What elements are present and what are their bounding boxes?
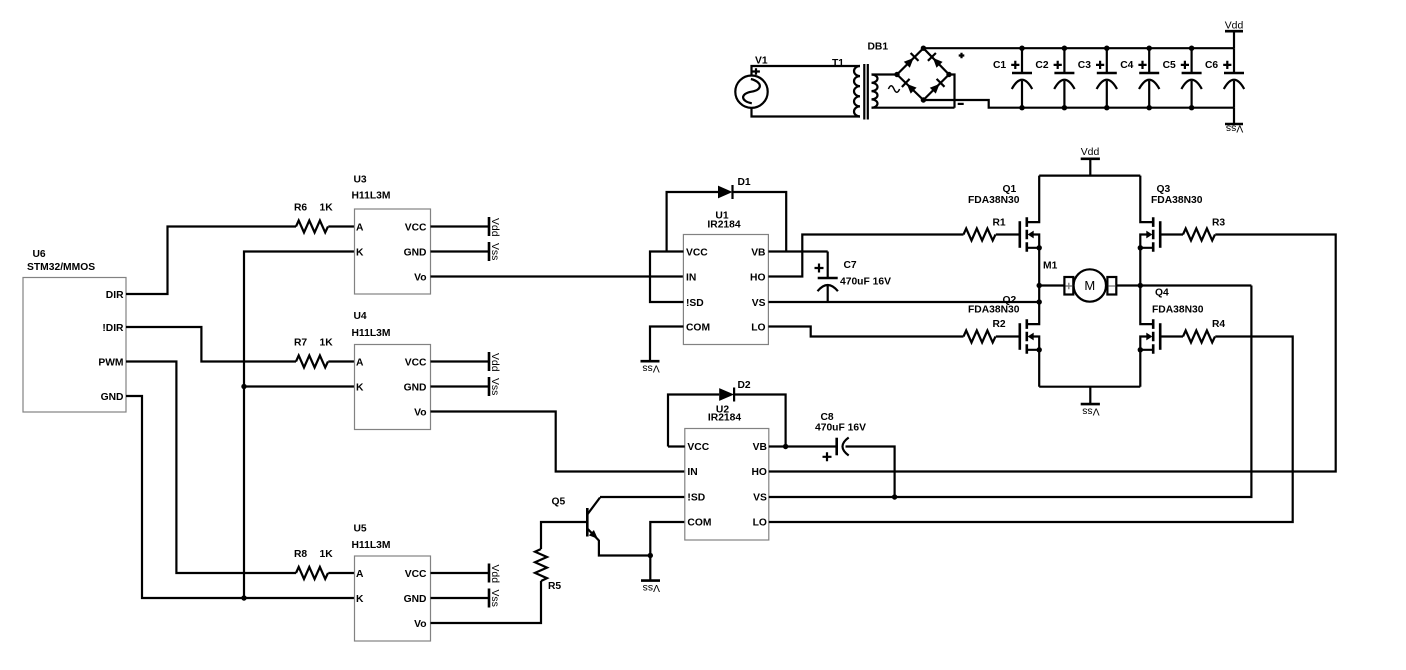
svg-text:1K: 1K (320, 338, 334, 349)
wire bridge right vertex down (949, 75, 955, 108)
svg-text:LO: LO (753, 517, 767, 528)
wire R4 to Q4 gate (1160, 335, 1183, 337)
svg-text:R1: R1 (993, 217, 1006, 228)
gate driver U1 IR2184 (683, 210, 768, 344)
power Vdd U3 (431, 217, 501, 237)
wire bridge - output rail (923, 100, 1234, 108)
svg-text:VB: VB (753, 442, 767, 453)
svg-text:Vss: Vss (489, 378, 500, 395)
svg-text:C2: C2 (1035, 60, 1048, 71)
resistor R8 (294, 549, 333, 579)
optocoupler U4 H11L3M (352, 311, 431, 430)
svg-text:R3: R3 (1212, 217, 1225, 228)
power Vss H-bridge (1081, 387, 1100, 417)
ground Vss at U1.COM (641, 361, 660, 373)
svg-text:Vo: Vo (414, 407, 426, 418)
svg-text:VS: VS (752, 298, 766, 309)
wire V1 top to T1 (752, 66, 861, 76)
svg-text:COM: COM (687, 517, 711, 528)
wire C8 to VS (846, 447, 895, 498)
capacitor C5 (1163, 46, 1202, 111)
wire U2.VB to C8 (769, 445, 837, 447)
svg-text:M1: M1 (1043, 261, 1058, 272)
svg-text:470uF 16V: 470uF 16V (840, 277, 891, 288)
wire R1 to Q1 gate (996, 233, 1020, 235)
svg-text:C5: C5 (1163, 60, 1176, 71)
svg-text:Vdd: Vdd (1081, 147, 1100, 158)
svg-text:K: K (356, 247, 364, 258)
svg-text:IR2184: IR2184 (708, 412, 741, 423)
svg-text:K: K (356, 382, 364, 393)
resistor R7 (294, 338, 333, 368)
svg-text:C4: C4 (1120, 60, 1133, 71)
svg-text:VCC: VCC (405, 222, 427, 233)
svg-text:LO: LO (751, 322, 765, 333)
svg-text:U4: U4 (354, 311, 367, 322)
transistor Q4 FDA38N30 (1138, 286, 1204, 387)
svg-text:M: M (1084, 278, 1095, 293)
resistor R6 (294, 203, 333, 233)
transistor Q3 FDA38N30 (1138, 176, 1203, 286)
svg-text:C8: C8 (821, 412, 834, 423)
svg-text:FDA38N30: FDA38N30 (1151, 195, 1203, 206)
resistor R5 (535, 549, 561, 592)
svg-text:FDA38N30: FDA38N30 (1152, 305, 1204, 316)
wire U1.COM down (650, 327, 683, 362)
svg-text:VCC: VCC (405, 357, 427, 368)
transistor Q1 FDA38N30 (968, 176, 1042, 286)
wire U2.HO to R3 (769, 235, 1336, 472)
power Vss U5 (431, 589, 501, 608)
svg-text:DIR: DIR (106, 290, 124, 301)
junction C8/VS (892, 494, 897, 499)
svg-text:VCC: VCC (405, 569, 427, 580)
svg-text:A: A (356, 357, 364, 368)
wire T1 secondary bottom to bridge (872, 107, 955, 109)
svg-text:GND: GND (404, 247, 427, 258)
svg-text:R8: R8 (294, 549, 307, 560)
svg-text:Q5: Q5 (552, 497, 566, 508)
wire left rail to motor (1039, 284, 1064, 286)
svg-text:Vss: Vss (643, 582, 660, 593)
MCU U6 STM32/MMOS (23, 249, 126, 412)
svg-text:!SD: !SD (687, 492, 705, 503)
svg-text:H11L3M: H11L3M (352, 191, 391, 202)
wire U1.VCC to U1.!SD (650, 252, 683, 303)
wire Q5 emitter (599, 540, 650, 556)
wire U2.VS to motor node (769, 286, 1252, 498)
wire R7 to U4.A (328, 360, 354, 362)
svg-text:PWM: PWM (98, 357, 123, 368)
wire common cathode (244, 252, 355, 599)
wire bridge bottom rail (1039, 386, 1140, 388)
svg-text:COM: COM (686, 322, 710, 333)
svg-text:1K: 1K (320, 203, 334, 214)
optocoupler U3 H11L3M (352, 175, 431, 295)
svg-text:T1: T1 (832, 58, 844, 69)
svg-text:Vss: Vss (489, 590, 500, 607)
svg-text:C7: C7 (844, 260, 857, 271)
junction motor left (1037, 283, 1042, 288)
svg-text:VCC: VCC (687, 442, 709, 453)
svg-text:Vss: Vss (642, 363, 659, 374)
diode bridge DB1 (868, 42, 965, 104)
svg-text:Vss: Vss (489, 243, 500, 260)
wire DIR to R6 (126, 227, 296, 295)
wire GND to U5.K (126, 396, 355, 598)
power Vdd top right (1225, 21, 1244, 49)
optocoupler U5 H11L3M (352, 524, 431, 642)
power Vss U3 (431, 242, 501, 261)
power Vss bottom right (1225, 108, 1243, 134)
svg-text:STM32/MMOS: STM32/MMOS (27, 262, 95, 273)
svg-text:Q4: Q4 (1155, 288, 1169, 299)
wire U1.HO to R1 (768, 235, 963, 277)
motor M1 (1043, 261, 1116, 302)
capacitor C6 (1205, 48, 1244, 107)
diode D2 (668, 380, 786, 447)
svg-text:GND: GND (101, 392, 124, 403)
svg-text:!DIR: !DIR (102, 323, 124, 334)
svg-text:R2: R2 (993, 319, 1006, 330)
capacitor C8 470uF 16V (815, 412, 866, 461)
wire R2 to Q2 gate (996, 335, 1020, 337)
wire U1.VB to C7 (768, 250, 827, 252)
svg-text:IR2184: IR2184 (707, 219, 740, 230)
wire U4.K (244, 385, 355, 387)
svg-text:A: A (356, 222, 364, 233)
svg-text:FDA38N30: FDA38N30 (968, 305, 1020, 316)
svg-text:C3: C3 (1078, 60, 1091, 71)
capacitor C7 470uF 16V (815, 252, 892, 303)
wire U2.COM down (650, 522, 685, 581)
svg-text:H11L3M: H11L3M (352, 540, 391, 551)
svg-text:Vo: Vo (414, 619, 426, 630)
svg-text:Vo: Vo (414, 272, 426, 283)
wire R3 to Q3 gate (1160, 233, 1183, 235)
voltage source V1 (735, 56, 768, 108)
resistor R2 (964, 319, 1006, 343)
transformer T1 (832, 58, 878, 120)
ground Vss at U2.COM (641, 581, 660, 594)
svg-text:A: A (356, 569, 364, 580)
svg-text:V1: V1 (755, 56, 768, 67)
wire motor node to VS U2 (1140, 284, 1251, 286)
svg-text:1K: 1K (320, 549, 334, 560)
junction emitter/COM (648, 553, 653, 558)
svg-text:!SD: !SD (686, 298, 704, 309)
svg-text:Vss: Vss (1082, 406, 1099, 417)
wire V1 bottom to T1 (752, 108, 861, 117)
resistor R1 (964, 217, 1006, 240)
wire T1 secondary top to bridge (872, 73, 898, 75)
svg-text:U5: U5 (354, 524, 367, 535)
svg-text:Vdd: Vdd (489, 218, 500, 237)
svg-text:FDA38N30: FDA38N30 (968, 195, 1020, 206)
capacitor C4 (1120, 46, 1159, 111)
wire !DIR to R7 (126, 327, 296, 362)
wire R8 to U5.A (328, 572, 354, 574)
svg-text:470uF 16V: 470uF 16V (815, 423, 866, 434)
resistor R4 (1183, 319, 1225, 343)
wire U3.Vo to U1.IN (431, 275, 684, 277)
svg-text:R6: R6 (294, 203, 307, 214)
junction motor right (1138, 283, 1143, 288)
capacitor C1 (993, 46, 1032, 111)
svg-text:C6: C6 (1205, 60, 1218, 71)
svg-text:VB: VB (751, 247, 765, 258)
svg-text:Vdd: Vdd (489, 565, 500, 584)
wire R5 to Q5 base (541, 522, 587, 549)
svg-text:K: K (356, 594, 364, 605)
wire U1.VS to bridge (768, 301, 1039, 303)
svg-text:Q3: Q3 (1157, 184, 1171, 195)
svg-text:VCC: VCC (686, 247, 708, 258)
power Vdd H-bridge (1081, 147, 1100, 176)
wire Q5 collector to U2.!SD (600, 496, 685, 498)
resistor R3 (1183, 217, 1225, 240)
wire bridge + output rail (923, 47, 1234, 49)
svg-text:GND: GND (404, 594, 427, 605)
svg-text:VS: VS (753, 492, 767, 503)
svg-text:C1: C1 (993, 60, 1006, 71)
wire R6 to U3.A (328, 225, 354, 227)
junction node K5 (241, 595, 246, 600)
svg-text:D1: D1 (738, 177, 751, 188)
svg-text:IN: IN (686, 272, 696, 283)
junction node K4 (241, 384, 246, 389)
svg-text:Vss: Vss (1226, 123, 1243, 134)
svg-text:D2: D2 (738, 380, 751, 391)
svg-text:Q1: Q1 (1003, 184, 1017, 195)
transistor Q2 FDA38N30 (968, 286, 1042, 387)
svg-text:HO: HO (751, 467, 766, 478)
wire U4.Vo to U2.IN (431, 412, 685, 472)
svg-text:DB1: DB1 (868, 42, 889, 53)
power Vss U4 (431, 377, 501, 396)
svg-text:R5: R5 (548, 581, 561, 592)
wire U2.VCC to D2 (668, 445, 685, 447)
svg-text:H11L3M: H11L3M (352, 328, 391, 339)
svg-text:HO: HO (750, 272, 765, 283)
svg-text:Vdd: Vdd (489, 353, 500, 372)
svg-text:U3: U3 (354, 175, 367, 186)
power Vdd U5 (431, 564, 501, 584)
junction D2/VB (783, 444, 788, 449)
wire PWM to R8 (126, 362, 296, 574)
power Vdd U4 (431, 352, 501, 372)
capacitor C2 (1035, 46, 1074, 111)
junction VS left rail (1037, 299, 1042, 304)
svg-text:R7: R7 (294, 338, 307, 349)
wire U5.Vo to R5 (431, 581, 542, 623)
diode D1 (667, 177, 787, 252)
svg-text:R4: R4 (1212, 319, 1225, 330)
wire motor to right rail (1116, 284, 1140, 286)
capacitor C3 (1078, 46, 1117, 111)
wire U1.LO to R2 (768, 327, 963, 337)
svg-text:IN: IN (687, 467, 697, 478)
gate driver U2 IR2184 (685, 404, 769, 540)
wire U2.LO to R4 (769, 337, 1293, 523)
transistor Q5 (552, 497, 601, 541)
svg-text:U6: U6 (33, 249, 46, 260)
wire bridge top rail (1039, 175, 1140, 177)
svg-text:GND: GND (404, 382, 427, 393)
